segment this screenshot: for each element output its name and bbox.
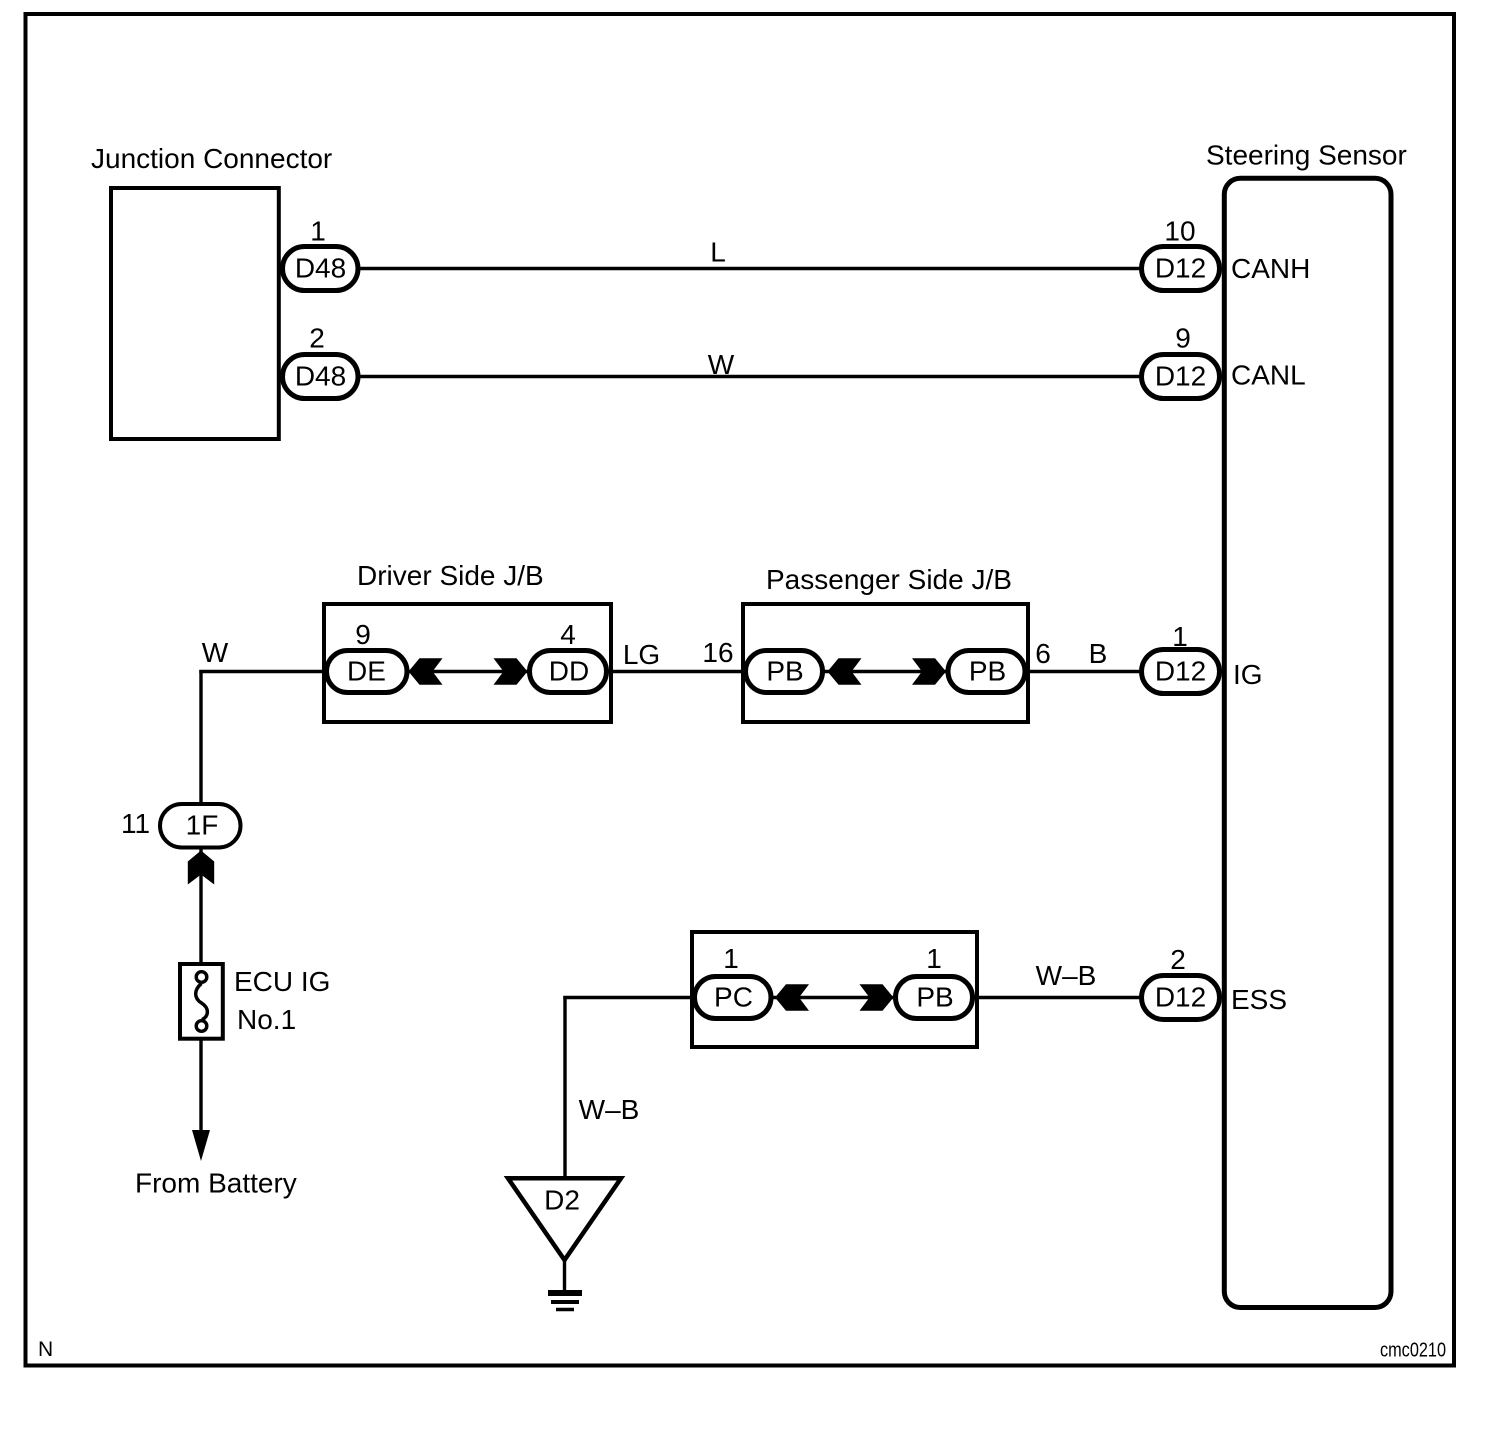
svg-text:1: 1 bbox=[926, 943, 942, 974]
svg-text:From Battery: From Battery bbox=[135, 1168, 297, 1199]
svg-text:9: 9 bbox=[355, 619, 371, 650]
svg-text:Steering Sensor: Steering Sensor bbox=[1206, 140, 1407, 171]
svg-text:W: W bbox=[202, 637, 229, 668]
svg-text:9: 9 bbox=[1175, 323, 1191, 354]
svg-text:Driver Side J/B: Driver Side J/B bbox=[357, 560, 544, 591]
svg-text:PC: PC bbox=[714, 982, 753, 1013]
svg-text:6: 6 bbox=[1035, 638, 1051, 669]
svg-text:D12: D12 bbox=[1155, 982, 1206, 1013]
svg-text:ECU IG: ECU IG bbox=[234, 966, 330, 997]
svg-text:IG: IG bbox=[1233, 659, 1263, 690]
svg-text:2: 2 bbox=[309, 323, 325, 354]
svg-text:N: N bbox=[38, 1338, 53, 1361]
svg-text:CANL: CANL bbox=[1231, 360, 1306, 391]
svg-text:4: 4 bbox=[560, 619, 576, 650]
svg-text:W: W bbox=[708, 349, 735, 380]
svg-text:1: 1 bbox=[310, 216, 326, 247]
svg-text:B: B bbox=[1089, 638, 1108, 669]
svg-text:ESS: ESS bbox=[1231, 984, 1287, 1015]
svg-text:PB: PB bbox=[916, 982, 953, 1013]
svg-text:L: L bbox=[710, 237, 726, 268]
svg-text:No.1: No.1 bbox=[237, 1004, 296, 1035]
svg-text:CANH: CANH bbox=[1231, 253, 1310, 284]
svg-text:D12: D12 bbox=[1155, 361, 1206, 392]
svg-text:Passenger Side J/B: Passenger Side J/B bbox=[766, 564, 1012, 595]
svg-text:2: 2 bbox=[1170, 944, 1186, 975]
svg-text:D12: D12 bbox=[1155, 656, 1206, 687]
svg-text:1: 1 bbox=[1172, 621, 1188, 652]
svg-text:PB: PB bbox=[766, 656, 803, 687]
svg-text:11: 11 bbox=[121, 808, 150, 839]
svg-text:D48: D48 bbox=[295, 253, 346, 284]
svg-text:DE: DE bbox=[347, 656, 386, 687]
svg-text:16: 16 bbox=[702, 637, 733, 668]
svg-text:10: 10 bbox=[1164, 216, 1195, 247]
svg-text:D48: D48 bbox=[295, 361, 346, 392]
svg-text:W–B: W–B bbox=[1036, 960, 1097, 991]
svg-text:LG: LG bbox=[623, 639, 660, 670]
svg-text:1: 1 bbox=[723, 943, 739, 974]
svg-text:Junction Connector: Junction Connector bbox=[91, 143, 332, 174]
svg-text:cmc0210: cmc0210 bbox=[1380, 1340, 1446, 1362]
svg-text:1F: 1F bbox=[186, 810, 219, 841]
svg-text:PB: PB bbox=[969, 656, 1006, 687]
svg-text:D2: D2 bbox=[544, 1185, 580, 1216]
svg-text:W–B: W–B bbox=[579, 1094, 640, 1125]
svg-text:DD: DD bbox=[549, 656, 589, 687]
svg-text:D12: D12 bbox=[1155, 253, 1206, 284]
